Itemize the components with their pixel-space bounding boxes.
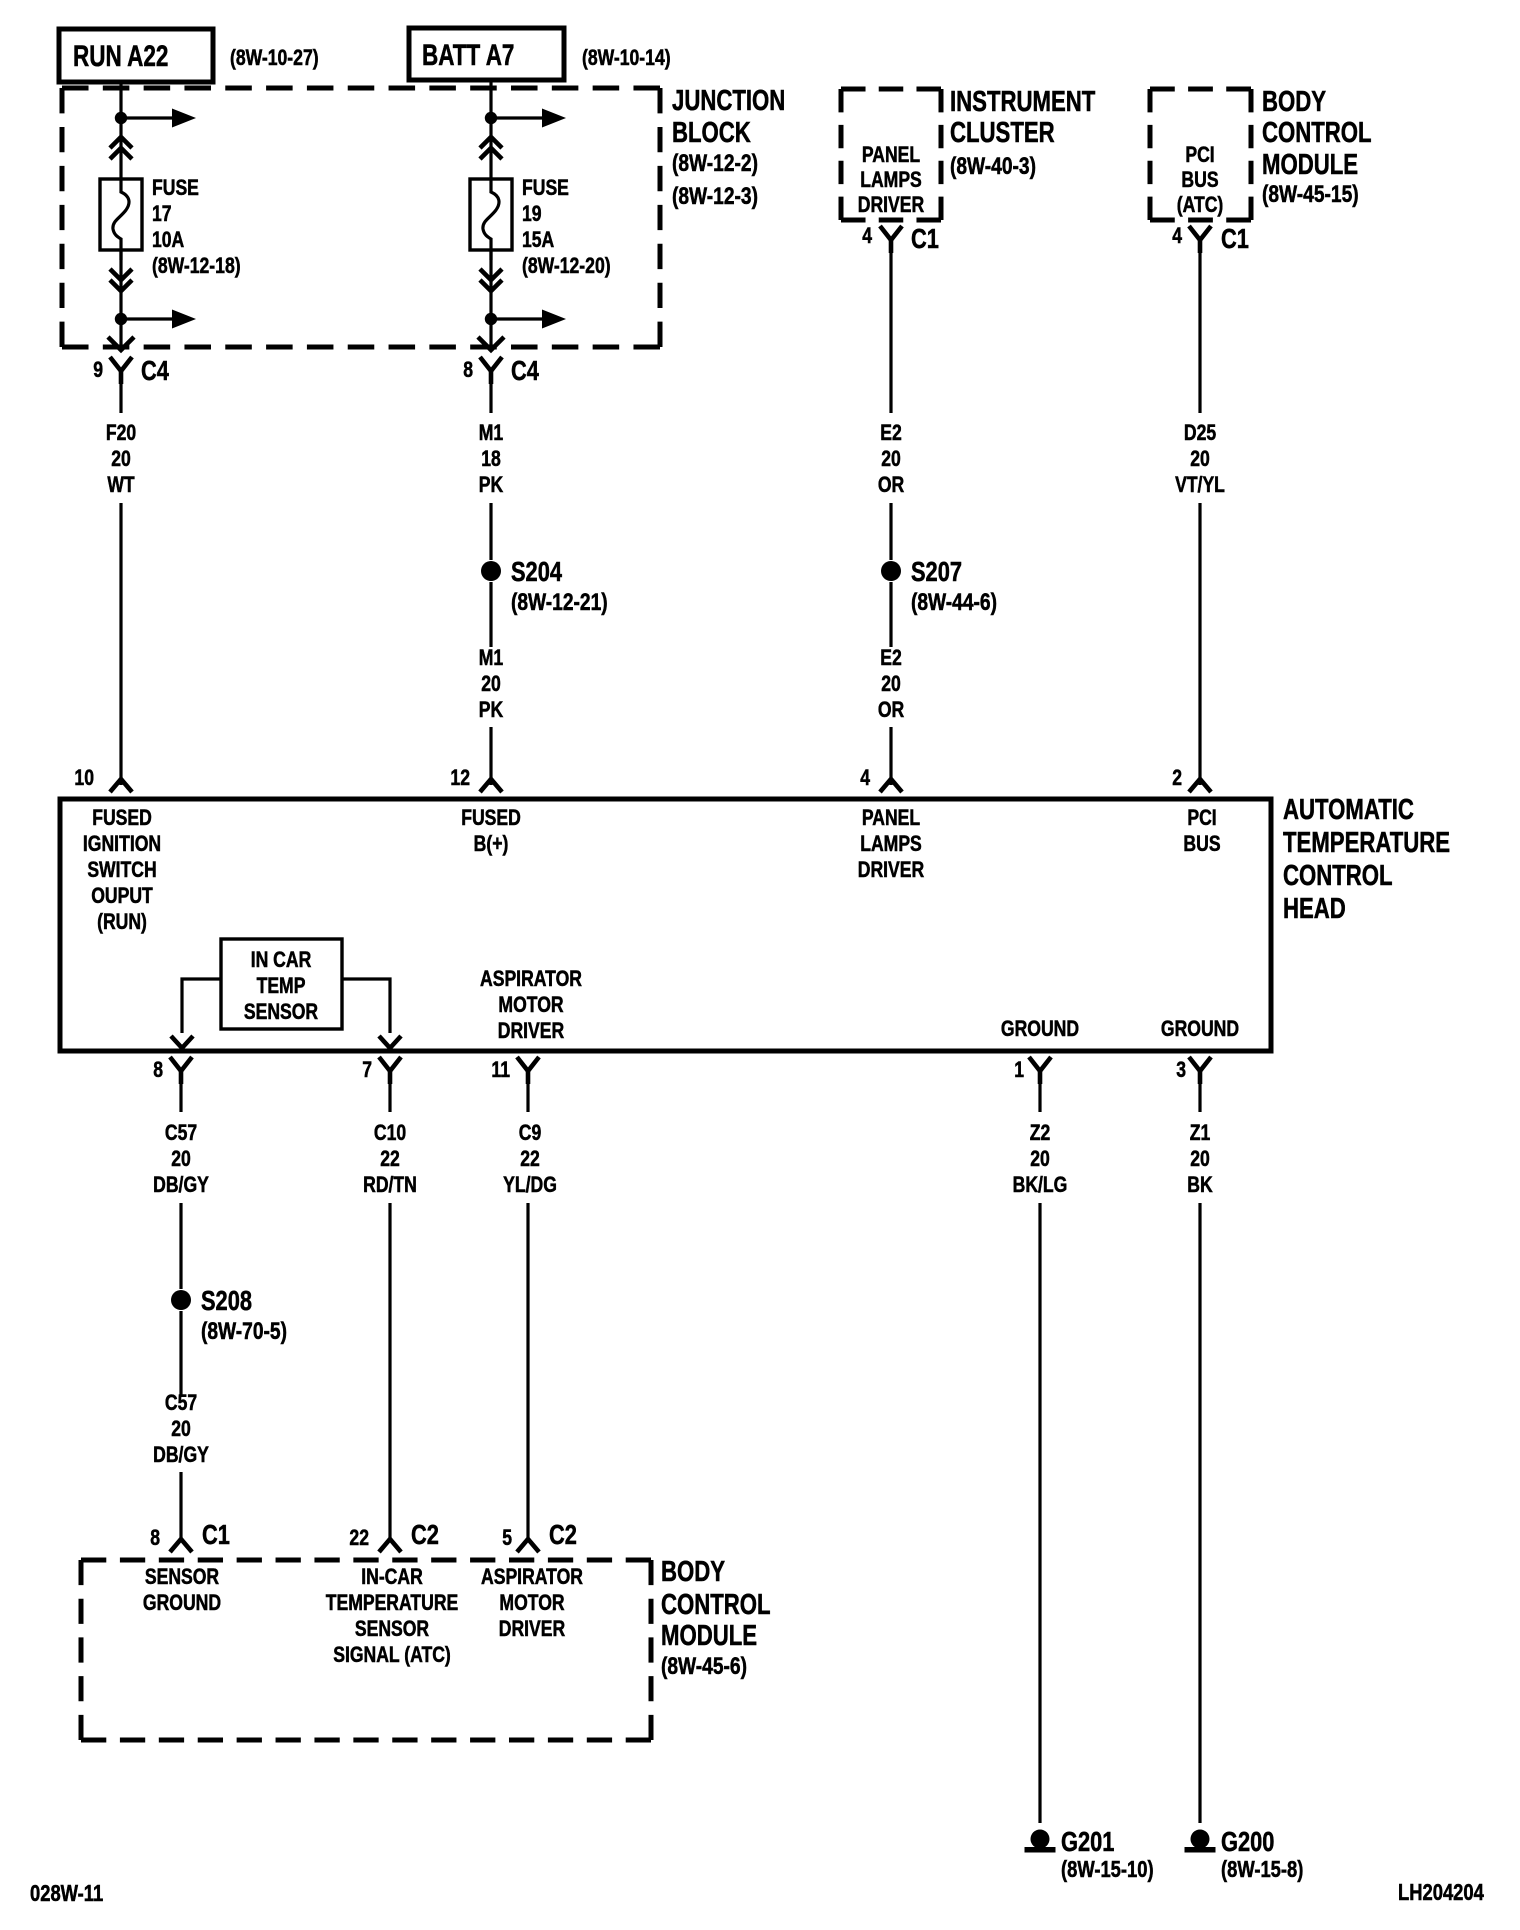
pin 2 entry symbol: [1189, 779, 1211, 792]
svg-text:MOTOR: MOTOR: [498, 993, 563, 1017]
svg-text:CONTROL: CONTROL: [661, 1589, 771, 1620]
svg-text:(8W-12-3): (8W-12-3): [672, 182, 758, 210]
wire BATT A7 to node: [489, 80, 492, 118]
pin 4 entry symbol: [880, 779, 902, 792]
svg-text:JUNCTION: JUNCTION: [672, 85, 785, 116]
pin 10 entry symbol: [110, 779, 132, 792]
svg-text:20: 20: [171, 1417, 191, 1441]
wire C10 upper: [388, 1084, 391, 1112]
svg-text:S204: S204: [511, 556, 562, 587]
arrow feed right below fuse 17: [121, 317, 175, 320]
svg-text:C2: C2: [411, 1519, 439, 1550]
wire E2 mid: [889, 503, 892, 560]
svg-text:22: 22: [380, 1147, 400, 1171]
svg-text:D25: D25: [1184, 421, 1216, 445]
pin 8 symbol (ATC): [170, 1057, 192, 1071]
svg-text:TEMPERATURE: TEMPERATURE: [1283, 827, 1450, 858]
node on BATT feed: [485, 112, 497, 124]
svg-text:YL/DG: YL/DG: [503, 1173, 557, 1197]
wire C57 to BCM pin 8: [179, 1472, 182, 1541]
svg-text:20: 20: [881, 672, 901, 696]
svg-text:BUS: BUS: [1183, 832, 1220, 856]
wire E2 lower: [889, 582, 892, 647]
wire node to junction block edge (BATT): [489, 319, 492, 348]
svg-text:C4: C4: [511, 355, 539, 386]
svg-text:TEMPERATURE: TEMPERATURE: [326, 1591, 459, 1615]
instrument cluster dashed box: [841, 87, 941, 92]
svg-text:DB/GY: DB/GY: [153, 1443, 209, 1467]
wire node to fuse 17: [119, 118, 122, 179]
svg-text:8: 8: [463, 358, 473, 382]
svg-text:C57: C57: [165, 1391, 197, 1415]
svg-text:C2: C2: [549, 1519, 577, 1550]
svg-text:3: 3: [1176, 1058, 1186, 1082]
svg-text:HEAD: HEAD: [1283, 893, 1346, 924]
svg-text:20: 20: [1030, 1147, 1050, 1171]
svg-text:18: 18: [481, 447, 501, 471]
svg-text:AUTOMATIC: AUTOMATIC: [1283, 794, 1414, 825]
svg-text:DRIVER: DRIVER: [858, 858, 924, 882]
wire F20 to ATC pin 10: [119, 503, 122, 785]
svg-text:RD/TN: RD/TN: [363, 1173, 417, 1197]
pin 5 entry symbol (BCM): [517, 1539, 539, 1552]
wire M1 lower segment: [489, 582, 492, 647]
svg-text:4: 4: [860, 766, 870, 790]
body control module dashed box (bottom): [81, 1558, 651, 1563]
svg-text:C4: C4: [141, 355, 169, 386]
connector C1 pin 4 symbol (IC): [880, 226, 902, 240]
wire E2 to ATC pin 4: [889, 727, 892, 785]
svg-text:(ATC): (ATC): [1177, 193, 1224, 217]
svg-text:028W-11: 028W-11: [30, 1881, 103, 1906]
pin 22 entry symbol (BCM): [379, 1539, 401, 1552]
svg-text:GROUND: GROUND: [1001, 1017, 1079, 1041]
svg-text:(8W-12-2): (8W-12-2): [672, 149, 758, 177]
inline connector chevrons down (BATT): [480, 269, 502, 280]
wire M1 upper segment: [489, 503, 492, 560]
svg-text:DRIVER: DRIVER: [858, 193, 924, 217]
svg-text:DRIVER: DRIVER: [498, 1019, 564, 1043]
body control module dashed box (top): [1150, 87, 1251, 92]
svg-text:SIGNAL (ATC): SIGNAL (ATC): [333, 1643, 451, 1667]
splice S207: [881, 561, 901, 581]
svg-text:BLOCK: BLOCK: [672, 117, 751, 148]
svg-text:TEMP: TEMP: [257, 974, 306, 998]
svg-text:MODULE: MODULE: [661, 1620, 757, 1651]
svg-text:FUSED: FUSED: [92, 806, 152, 830]
arrow feed right (RUN): [121, 116, 175, 119]
wire C4 pin9 down: [119, 383, 122, 413]
svg-text:C57: C57: [165, 1121, 197, 1145]
svg-text:12: 12: [450, 766, 470, 790]
svg-text:22: 22: [349, 1526, 369, 1550]
wire node to junction block edge: [119, 319, 122, 348]
connector C1 pin 4 symbol (BCM): [1189, 226, 1211, 240]
ground G201 symbol: [1031, 1830, 1050, 1849]
svg-text:20: 20: [111, 447, 131, 471]
svg-text:ASPIRATOR: ASPIRATOR: [480, 967, 582, 991]
svg-text:LH204204: LH204204: [1398, 1880, 1484, 1905]
connector C4 pin 8 symbol: [480, 357, 502, 371]
svg-text:(RUN): (RUN): [97, 910, 147, 934]
node below fuse 17: [115, 313, 127, 325]
wire C9 upper: [526, 1084, 529, 1112]
svg-text:CONTROL: CONTROL: [1262, 117, 1372, 148]
power node box RUN A22: [59, 29, 213, 82]
wire sensor left: [182, 979, 221, 1033]
svg-text:(8W-15-10): (8W-15-10): [1061, 1857, 1154, 1882]
svg-text:BK/LG: BK/LG: [1013, 1173, 1068, 1197]
wire M1 to ATC pin 12: [489, 727, 492, 785]
svg-text:(8W-70-5): (8W-70-5): [201, 1317, 287, 1345]
svg-text:10A: 10A: [152, 228, 184, 252]
svg-text:9: 9: [93, 358, 103, 382]
svg-text:INSTRUMENT: INSTRUMENT: [950, 86, 1096, 117]
svg-text:MOTOR: MOTOR: [499, 1591, 564, 1615]
svg-text:5: 5: [502, 1526, 512, 1550]
svg-text:PK: PK: [479, 698, 504, 722]
svg-text:20: 20: [881, 447, 901, 471]
svg-text:F20: F20: [106, 421, 136, 445]
svg-text:SENSOR: SENSOR: [145, 1565, 219, 1589]
wire C10 to BCM pin 22: [388, 1203, 391, 1541]
exit chevron (BATT): [478, 337, 504, 350]
svg-text:C1: C1: [202, 1519, 230, 1550]
power node box BATT A7: [409, 28, 564, 80]
svg-text:C1: C1: [1221, 223, 1249, 254]
svg-text:OUPUT: OUPUT: [91, 884, 153, 908]
svg-text:(8W-10-14): (8W-10-14): [582, 46, 671, 70]
pin 8 entry symbol (BCM): [170, 1539, 192, 1552]
svg-text:GROUND: GROUND: [143, 1591, 221, 1615]
pin 7 symbol (ATC): [379, 1057, 401, 1071]
arrowhead sensor right: [379, 1036, 401, 1048]
splice S204: [481, 561, 501, 581]
wire D25 to ATC pin 2: [1198, 503, 1201, 785]
svg-text:(8W-44-6): (8W-44-6): [911, 588, 997, 616]
svg-text:19: 19: [522, 202, 542, 226]
svg-text:Z2: Z2: [1030, 1121, 1051, 1145]
inline connector chevrons up (RUN): [110, 137, 132, 148]
svg-text:M1: M1: [479, 646, 503, 670]
svg-text:RUN A22: RUN A22: [73, 39, 168, 73]
svg-text:E2: E2: [880, 646, 902, 670]
wire Z2 to ground G201: [1038, 1203, 1041, 1823]
ground G200 symbol: [1191, 1830, 1210, 1849]
wire C57 lower: [179, 1311, 182, 1396]
svg-text:DRIVER: DRIVER: [499, 1617, 565, 1641]
pin 11 symbol (ATC): [517, 1057, 539, 1071]
svg-text:BODY: BODY: [1262, 86, 1326, 117]
connector C4 pin 9 symbol: [110, 357, 132, 371]
svg-text:DB/GY: DB/GY: [153, 1173, 209, 1197]
svg-text:B(+): B(+): [474, 832, 509, 856]
wire C57 mid: [179, 1203, 182, 1289]
svg-text:IGNITION: IGNITION: [83, 832, 161, 856]
svg-text:(8W-12-21): (8W-12-21): [511, 588, 608, 616]
svg-text:PCI: PCI: [1187, 806, 1216, 830]
svg-text:(8W-45-15): (8W-45-15): [1262, 180, 1359, 208]
svg-text:WT: WT: [107, 473, 134, 497]
exit chevron (RUN): [108, 337, 134, 350]
svg-text:4: 4: [862, 224, 872, 248]
svg-text:(8W-40-3): (8W-40-3): [950, 152, 1036, 180]
svg-text:M1: M1: [479, 421, 503, 445]
svg-text:17: 17: [152, 202, 172, 226]
in car temp sensor box: [221, 939, 342, 1029]
svg-text:(8W-12-18): (8W-12-18): [152, 254, 241, 278]
svg-text:LAMPS: LAMPS: [860, 168, 922, 192]
svg-text:BATT A7: BATT A7: [422, 38, 514, 72]
arrowhead sensor left: [171, 1036, 193, 1048]
svg-text:(8W-12-20): (8W-12-20): [522, 254, 611, 278]
pin 1 symbol (ATC): [1029, 1057, 1051, 1071]
wire RUN A22 to node: [119, 82, 122, 118]
svg-text:OR: OR: [878, 698, 904, 722]
wire sensor right: [342, 979, 390, 1033]
svg-text:C1: C1: [911, 223, 939, 254]
wire D25 from BCM: [1198, 253, 1201, 413]
svg-text:20: 20: [171, 1147, 191, 1171]
svg-text:PANEL: PANEL: [862, 806, 920, 830]
junction block dashed box: [62, 86, 660, 91]
pin 12 entry symbol: [480, 779, 502, 792]
svg-text:8: 8: [150, 1526, 160, 1550]
svg-text:15A: 15A: [522, 228, 554, 252]
svg-text:VT/YL: VT/YL: [1175, 473, 1225, 497]
wire C57 upper: [179, 1084, 182, 1112]
svg-text:FUSE: FUSE: [152, 176, 199, 200]
svg-text:G200: G200: [1221, 1826, 1274, 1857]
wire E2 from IC: [889, 253, 892, 413]
svg-text:SWITCH: SWITCH: [87, 858, 156, 882]
svg-text:FUSE: FUSE: [522, 176, 569, 200]
svg-text:IN-CAR: IN-CAR: [361, 1565, 423, 1589]
svg-text:PK: PK: [479, 473, 504, 497]
svg-text:20: 20: [1190, 447, 1210, 471]
svg-text:(8W-15-8): (8W-15-8): [1221, 1857, 1303, 1882]
svg-text:IN CAR: IN CAR: [251, 948, 312, 972]
arrow feed right below fuse 19: [491, 317, 545, 320]
fuse 17 10A: [100, 179, 142, 250]
arrow feed right (BATT): [491, 116, 545, 119]
svg-text:SENSOR: SENSOR: [244, 1000, 318, 1024]
splice S208: [171, 1290, 191, 1310]
svg-text:CONTROL: CONTROL: [1283, 860, 1393, 891]
svg-text:20: 20: [481, 672, 501, 696]
svg-text:PCI: PCI: [1185, 143, 1214, 167]
wire Z1 upper: [1198, 1084, 1201, 1112]
svg-text:BK: BK: [1187, 1173, 1213, 1197]
svg-text:PANEL: PANEL: [862, 143, 920, 167]
inline connector chevrons down (RUN): [110, 269, 132, 280]
svg-text:BUS: BUS: [1181, 168, 1218, 192]
svg-text:10: 10: [74, 766, 94, 790]
svg-text:22: 22: [520, 1147, 540, 1171]
svg-text:S207: S207: [911, 556, 962, 587]
wire C4 pin8 down: [489, 383, 492, 413]
svg-text:20: 20: [1190, 1147, 1210, 1171]
svg-text:11: 11: [491, 1058, 510, 1082]
svg-text:(8W-10-27): (8W-10-27): [230, 46, 319, 70]
svg-text:C9: C9: [519, 1121, 541, 1145]
pin 3 symbol (ATC): [1189, 1057, 1211, 1071]
svg-text:SENSOR: SENSOR: [355, 1617, 429, 1641]
svg-text:8: 8: [153, 1058, 163, 1082]
wire fuse 19 to node 2: [489, 250, 492, 319]
svg-text:CLUSTER: CLUSTER: [950, 117, 1055, 148]
wire Z1 to ground G200: [1198, 1203, 1201, 1823]
wire C9 to BCM pin 5: [526, 1203, 529, 1541]
svg-text:4: 4: [1172, 224, 1182, 248]
fuse 19 15A: [470, 179, 512, 250]
inline connector chevrons up (BATT): [480, 137, 502, 148]
svg-text:7: 7: [362, 1058, 372, 1082]
svg-text:1: 1: [1014, 1058, 1024, 1082]
svg-text:GROUND: GROUND: [1161, 1017, 1239, 1041]
svg-text:ASPIRATOR: ASPIRATOR: [481, 1565, 583, 1589]
svg-text:G201: G201: [1061, 1826, 1114, 1857]
svg-text:MODULE: MODULE: [1262, 149, 1358, 180]
node below fuse 19: [485, 313, 497, 325]
wire fuse 17 to node 2: [119, 250, 122, 319]
wire Z2 upper: [1038, 1084, 1041, 1112]
svg-text:C10: C10: [374, 1121, 406, 1145]
svg-text:FUSED: FUSED: [461, 806, 521, 830]
svg-text:E2: E2: [880, 421, 902, 445]
svg-text:BODY: BODY: [661, 1556, 725, 1587]
svg-text:OR: OR: [878, 473, 904, 497]
node on RUN feed: [115, 112, 127, 124]
svg-text:LAMPS: LAMPS: [860, 832, 922, 856]
wire node to fuse 19: [489, 118, 492, 179]
svg-text:S208: S208: [201, 1285, 252, 1316]
svg-text:2: 2: [1172, 766, 1182, 790]
ATC head box: [60, 799, 1271, 1051]
svg-text:(8W-45-6): (8W-45-6): [661, 1652, 747, 1680]
svg-text:Z1: Z1: [1190, 1121, 1211, 1145]
